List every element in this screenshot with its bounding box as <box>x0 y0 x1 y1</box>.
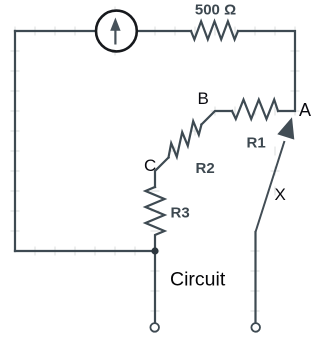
wire bottom horizontal <box>15 250 155 252</box>
wire node B to R1 <box>202 111 233 125</box>
wire top-left horizontal <box>15 30 96 32</box>
svg-text:Circuit: Circuit <box>170 269 226 291</box>
current source <box>96 11 137 52</box>
svg-text:B: B <box>198 89 209 108</box>
resistor R3 zigzag body with bottom lead <box>146 187 165 251</box>
right terminal <box>251 323 260 332</box>
wire X bend to right terminal <box>254 232 256 323</box>
svg-text:R1: R1 <box>247 135 266 152</box>
left terminal <box>150 323 159 332</box>
resistor R1 zigzag body <box>232 100 278 119</box>
wire 500-ohm resistor to top-right corner down to node A <box>238 31 295 111</box>
wire current source to 500-ohm resistor <box>137 30 191 32</box>
wire junction to left terminal <box>154 251 156 323</box>
svg-text:500 Ω: 500 Ω <box>195 2 236 19</box>
arrow X pointing to node A <box>256 117 295 232</box>
svg-text:R2: R2 <box>196 160 215 177</box>
svg-text:A: A <box>299 100 311 120</box>
svg-text:C: C <box>144 156 156 175</box>
resistor R2 zigzag body <box>169 121 202 157</box>
wire R2 to node C to R3 <box>155 158 169 188</box>
svg-text:R3: R3 <box>171 205 190 222</box>
resistor 500-ohm zigzag body <box>191 21 238 39</box>
svg-text:X: X <box>275 185 286 204</box>
wire left vertical <box>14 31 16 251</box>
junction dot <box>151 247 158 254</box>
